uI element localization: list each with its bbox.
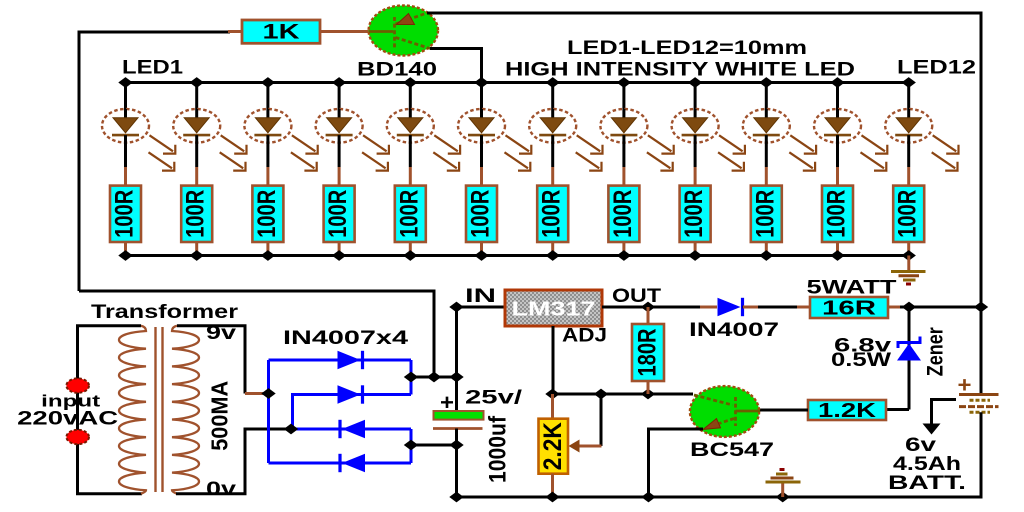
transformer T1 core (156, 327, 163, 492)
svg-text:HIGH INTENSITY WHITE LED: HIGH INTENSITY WHITE LED (505, 60, 855, 81)
wire 180R bottom lead (647, 381, 650, 394)
junction bridge DC+ (404, 372, 418, 383)
wire LED5 column (409, 83, 412, 111)
resistor R12 100R (893, 186, 924, 256)
svg-text:1000uf: 1000uf (485, 415, 512, 483)
transformer T1 secondary winding (172, 326, 199, 494)
svg-text:1K: 1K (263, 21, 300, 44)
wire battery positive (980, 307, 983, 395)
wire 2.2K wiper (600, 394, 603, 446)
resistor R1 100R (110, 186, 141, 256)
battery BT1 6v (959, 395, 999, 413)
wire (emitter to battery rail) (427, 13, 981, 305)
resistor R5 100R (395, 186, 426, 256)
junction (bottom bus col 12) (902, 250, 916, 261)
wire LED anode bus (123, 81, 909, 84)
junction battery node (974, 302, 988, 313)
svg-text:5WATT: 5WATT (807, 278, 898, 299)
LED12 (885, 109, 958, 186)
svg-text:6v: 6v (905, 435, 937, 456)
wire (79, 32, 230, 291)
wire LED8 column (622, 83, 625, 111)
diode D3 IN4007 (340, 420, 365, 438)
svg-text:BATT.: BATT. (888, 473, 966, 494)
junction (top bus col 3) (261, 77, 275, 88)
terminal input live (66, 378, 89, 392)
junction ground bus at ground symbol (776, 492, 790, 503)
diode D5 IN4007 (718, 298, 743, 316)
wire (320, 30, 370, 33)
resistor R11 100R (822, 186, 853, 256)
wire (228, 30, 243, 33)
wire lead stubs (brown) (700, 307, 900, 410)
wire LED6 column (480, 83, 483, 111)
svg-text:IN4007: IN4007 (689, 320, 779, 341)
junction bridge AC1 (261, 388, 275, 399)
svg-text:LED1: LED1 (122, 58, 184, 79)
svg-text:180R: 180R (634, 329, 662, 377)
LED3 (244, 109, 317, 186)
wire (collector to LED bus) (430, 49, 482, 83)
junction (bottom bus col 7) (546, 250, 560, 261)
wire bridge DC+ out (411, 376, 457, 379)
wire 180R top lead (647, 307, 650, 325)
svg-text:0.5W: 0.5W (831, 350, 891, 371)
svg-text:Zener: Zener (922, 327, 947, 376)
svg-text:25v/: 25v/ (465, 388, 523, 409)
junction OUT node (641, 302, 655, 313)
svg-text:+: + (958, 373, 972, 398)
junction (bottom bus col 1) (118, 250, 132, 261)
junction (bottom bus col 5) (403, 250, 417, 261)
svg-text:2.2K: 2.2K (539, 422, 567, 470)
LED11 (814, 109, 887, 186)
zener diode ZD1 6.8v (897, 337, 921, 361)
junction cap bottom/DC- (449, 440, 463, 451)
resistor R13 180R (632, 324, 664, 381)
battery negative pointer arrow (923, 400, 957, 435)
diode D1 IN4007 (338, 351, 363, 369)
resistor R6 100R (466, 186, 497, 256)
junction bridge DC- (404, 440, 418, 451)
junction ground bus at 2.2K (545, 492, 559, 503)
junction dc+ riser (427, 372, 441, 383)
wire mains left (78, 326, 143, 494)
junction (top bus col 6) (474, 77, 488, 88)
svg-text:9v: 9v (206, 323, 237, 344)
svg-text:500MA: 500MA (207, 381, 233, 451)
svg-text:0v: 0v (206, 479, 237, 500)
wire dc+ riser to top loop (79, 291, 434, 377)
junction ADJ/2.2K (545, 389, 559, 400)
capacitor C1 minus plate (433, 427, 483, 430)
wire 9v to bridge (245, 392, 269, 395)
svg-text:16R: 16R (822, 298, 877, 320)
svg-text:Transformer: Transformer (91, 302, 239, 323)
junction bridge AC2 (284, 424, 298, 435)
LED8 (600, 109, 673, 186)
potentiometer VR1 2.2K (539, 419, 569, 474)
junction (top bus col 1) (118, 77, 132, 88)
junction (top bus col 11) (830, 77, 844, 88)
wire bridge row3 (291, 428, 411, 431)
ground (main) (766, 470, 801, 498)
junction (top bus col 12) (902, 77, 916, 88)
svg-text:LED1-LED12=10mm: LED1-LED12=10mm (567, 38, 807, 59)
junction (top bus col 4) (332, 77, 346, 88)
wire LED9 column (694, 83, 697, 111)
svg-text:LED12: LED12 (897, 58, 976, 79)
LED6 (458, 109, 531, 186)
junction (bottom bus col 2) (190, 250, 204, 261)
wire zener to 1.2K (886, 408, 909, 411)
wire 16R to battery rail (888, 306, 981, 309)
LED4 (316, 109, 389, 186)
junction ground bus at cap (449, 492, 463, 503)
wire LED1 column (124, 83, 127, 111)
junction (bottom bus col 11) (830, 250, 844, 261)
svg-text:ADJ: ADJ (562, 326, 607, 347)
LED10 (743, 109, 816, 186)
ground (LED return) (891, 256, 926, 285)
junction zener node (902, 302, 916, 313)
wire bridge DC- out (411, 444, 457, 447)
wire LED11 column (836, 83, 839, 111)
wire bridge row1 (269, 359, 412, 362)
resistor R14 16R (810, 297, 888, 320)
junction (bottom bus col 9) (688, 250, 702, 261)
wire secondary 9v (177, 326, 245, 394)
transistor Q2 BC547 (NPN) (690, 386, 760, 437)
resistor 1K (242, 20, 320, 44)
LED9 (672, 109, 745, 186)
wire secondary 0v (176, 429, 291, 494)
junction IN node (449, 302, 463, 313)
junction (bottom bus col 10) (759, 250, 773, 261)
wire LED2 column (195, 83, 198, 111)
wire BC547 emitter to ground bus (649, 429, 704, 497)
wire OUT rail (602, 306, 716, 309)
wire LM317 ADJ pin (552, 326, 555, 394)
wire LED12 column (907, 83, 910, 111)
junction (top bus col 8) (617, 77, 631, 88)
resistor R2 100R (181, 186, 212, 256)
junction (bottom bus col 6) (474, 250, 488, 261)
wire IN to LM317 (457, 306, 506, 309)
resistor R7 100R (537, 186, 568, 256)
resistor R9 100R (680, 186, 711, 256)
svg-text:4.5Ah: 4.5Ah (893, 454, 961, 475)
wire 2.2K bottom lead (551, 474, 554, 497)
svg-text:LM317: LM317 (512, 299, 596, 321)
resistor R10 100R (751, 186, 782, 256)
resistor R3 100R (252, 186, 283, 256)
wire bridge right vertical top (410, 360, 413, 395)
wire bridge row4 (269, 462, 412, 465)
junction (top bus col 2) (190, 77, 204, 88)
junction cap top rail (449, 372, 463, 383)
wire LED7 column (551, 83, 554, 111)
junction (bottom bus col 4) (332, 250, 346, 261)
junction ground bus at emitter (641, 492, 655, 503)
svg-text:+: + (440, 390, 454, 415)
wire LED cathode bus (123, 254, 909, 257)
resistor R15 1.2K (808, 400, 886, 422)
resistor R8 100R (608, 186, 639, 256)
wire bridge row2 (293, 395, 412, 430)
diode D2 IN4007 (338, 385, 363, 403)
svg-text:BD140: BD140 (357, 60, 437, 81)
svg-text:IN4007x4: IN4007x4 (283, 328, 409, 349)
junction wiper riser (594, 389, 608, 400)
junction (top bus col 10) (759, 77, 773, 88)
svg-text:IN: IN (465, 286, 496, 307)
capacitor C1 1000uf plus plate (434, 411, 484, 420)
LED2 (173, 109, 246, 186)
junction 180R bottom / base (641, 389, 655, 400)
wire cap bottom to ground bus (455, 429, 458, 498)
wire LED10 column (765, 83, 768, 111)
wire bridge right vertical bottom (410, 429, 413, 463)
junction (top bus col 5) (403, 77, 417, 88)
svg-text:1.2K: 1.2K (818, 400, 877, 422)
wire 2.2K top lead (551, 394, 554, 419)
transformer T1 primary winding (119, 326, 146, 494)
svg-text:BC547: BC547 (690, 440, 774, 461)
wiper arrow (569, 440, 580, 453)
wire ADJ row (553, 393, 693, 396)
diode D4 IN4007 (340, 454, 365, 472)
wire battery negative to ground bus (457, 412, 982, 497)
LED1 (102, 109, 175, 186)
resistor R4 100R (324, 186, 355, 256)
terminal input neutral (66, 430, 89, 444)
wire cap/IN column (455, 307, 458, 411)
junction (BD140 collector at bus) (474, 77, 488, 88)
wire LED3 column (266, 83, 269, 111)
wire LED4 column (338, 83, 341, 111)
transistor Q1 BD140 (PNP) (369, 6, 438, 56)
wire diode to 16R (743, 306, 811, 309)
LED7 (529, 109, 602, 186)
svg-text:220vAC: 220vAC (17, 409, 118, 430)
svg-text:OUT: OUT (612, 286, 661, 307)
wire zener column (908, 307, 911, 410)
wire bridge left vertical (267, 360, 270, 463)
regulator U1 LM317 (505, 290, 602, 326)
wire BC547 collector to 1.2K (760, 409, 808, 412)
junction (top bus col 7) (546, 77, 560, 88)
junction (bottom bus col 8) (617, 250, 631, 261)
junction (bottom bus col 3) (261, 250, 275, 261)
junction (top bus col 9) (688, 77, 702, 88)
LED5 (387, 109, 460, 186)
